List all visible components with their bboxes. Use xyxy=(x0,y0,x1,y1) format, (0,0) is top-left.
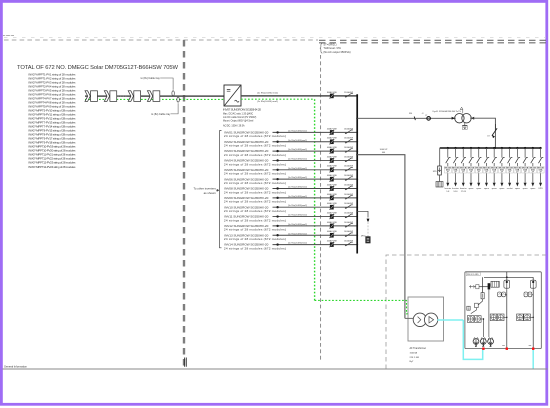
node GRID interface note xyxy=(320,43,351,55)
node LV feeder 2 load label xyxy=(452,187,459,193)
node LV feeder 2 rating label xyxy=(452,166,459,173)
breaker LV feeder 2 xyxy=(453,147,458,167)
switch S at y207 xyxy=(344,202,353,209)
svg-text:400A FUSE: 400A FUSE xyxy=(327,165,338,168)
svg-text:24 strings of 28 modules (672: 24 strings of 28 modules (672 modules) xyxy=(224,209,286,213)
fuse F at y217 xyxy=(327,211,338,219)
node bus junction INV11 xyxy=(356,216,358,218)
contactor RMU feeder 2 xyxy=(532,290,534,349)
svg-text:(2x 95x(2x185) mm2): (2x 95x(2x185) mm2) xyxy=(257,92,278,94)
node bus junction INV09 xyxy=(356,197,358,199)
meter pair RMU feeder 1 xyxy=(490,314,504,321)
svg-text:24 strings of 28 modules (672: 24 strings of 28 modules (672 modules) xyxy=(224,162,286,166)
svg-text:to (8x) Cable tray: to (8x) Cable tray xyxy=(141,77,161,80)
node LV feeder 9 load label xyxy=(507,187,513,190)
node bus junction INV10 xyxy=(356,206,358,208)
svg-text:24 strings of 28 modules (672: 24 strings of 28 modules (672 modules) xyxy=(224,144,286,148)
svg-text:400A FUSE: 400A FUSE xyxy=(327,174,338,177)
node LV feeder 7 load label xyxy=(492,188,498,190)
node feeder entry INV02 xyxy=(224,140,286,148)
svg-text:Max. DC/AC ratio 1.35 @40C: Max. DC/AC ratio 1.35 @40C xyxy=(223,112,254,115)
transformer T2 auxiliary box xyxy=(408,297,444,341)
svg-text:(1x 95x(2x185)mm2): (1x 95x(2x185)mm2) xyxy=(288,215,307,217)
svg-text:400A FUSE: 400A FUSE xyxy=(327,146,338,149)
fuse F at y132 xyxy=(327,127,338,135)
svg-text:spare: spare xyxy=(492,188,498,190)
breaker LV feeder 5 xyxy=(477,147,482,167)
connector lug J2 xyxy=(177,97,179,102)
svg-text:24 strings of 28 modules (672: 24 strings of 28 modules (672 modules) xyxy=(224,181,286,185)
fuse F at y179 xyxy=(327,174,338,182)
svg-text:22K 2.5M: 22K 2.5M xyxy=(410,357,420,359)
current transformer CT1 xyxy=(425,115,430,120)
node LV feeder 4 load label xyxy=(468,188,474,190)
node RMU f2 junction xyxy=(530,317,534,318)
node bus junction INV06 xyxy=(356,178,358,180)
node feeder entry INV09 xyxy=(224,196,286,204)
breaker LV feeder 1 xyxy=(446,147,451,167)
svg-text:INV07 SUNGROW SG350HX-20: INV07 SUNGROW SG350HX-20 xyxy=(223,108,261,112)
node bus junction INV08 xyxy=(356,188,358,190)
svg-text:400A FUSE: 400A FUSE xyxy=(327,240,338,243)
switch S at y160 xyxy=(344,155,353,162)
contactor RMU feeder 1 xyxy=(506,290,508,349)
bus LV distribution xyxy=(440,147,542,149)
node RMU terminal red 1 xyxy=(482,348,484,350)
node feeder entry INV05 xyxy=(224,168,286,176)
wire DC earth green dotted xyxy=(85,98,224,100)
wire cyan T2 to RMU xyxy=(437,319,463,321)
wire feeder INV06 to bus xyxy=(273,177,358,180)
breaker LV feeder 10 xyxy=(515,147,520,167)
wire RMU left branch down xyxy=(481,289,489,337)
breaker LV feeder 6 xyxy=(484,147,489,167)
svg-text:24 strings of 28 modules (672: 24 strings of 28 modules (672 modules) xyxy=(224,200,286,204)
wire LV feeder 9 out xyxy=(508,173,511,186)
wire boundary dashed vertical B xyxy=(320,55,322,362)
wire LV feeder 1 out xyxy=(446,173,449,186)
svg-text:(1x 95x(2x185)mm2): (1x 95x(2x185)mm2) xyxy=(288,177,307,179)
breaker LV feeder 12 xyxy=(531,147,536,167)
node bus junction INV12 xyxy=(356,225,358,227)
svg-text:(1x 95x(2x185)mm2): (1x 95x(2x185)mm2) xyxy=(288,140,307,142)
svg-text:(No AC output 350KVA): (No AC output 350KVA) xyxy=(323,50,350,54)
current transformer CT2 metering drop xyxy=(357,211,370,243)
node callout cable tray lower xyxy=(151,103,178,116)
node feeder entry INV04 xyxy=(224,159,286,167)
svg-text:SPD: SPD xyxy=(433,171,438,173)
wire LV feeder 12 out xyxy=(531,173,534,186)
wire feeder INV02 to bus xyxy=(273,140,358,143)
wire LV feeder 7 out xyxy=(493,173,496,186)
wire LV feeder 3 out xyxy=(462,173,465,186)
svg-text:(1x 95x(2x185)mm2): (1x 95x(2x185)mm2) xyxy=(288,158,307,160)
node bus junction INV02 xyxy=(356,141,358,143)
PV string block PV2 xyxy=(104,91,116,102)
svg-text:400A FUSE: 400A FUSE xyxy=(327,221,338,224)
wire feeder INV05 to bus xyxy=(273,168,358,171)
svg-text:spare: spare xyxy=(499,188,505,190)
svg-text:400A FUSE: 400A FUSE xyxy=(327,137,338,140)
node inverter label INV07 xyxy=(223,108,261,128)
fuse F at y160 xyxy=(327,155,338,163)
node feeder entry INV12 xyxy=(224,224,286,232)
svg-text:THD level <3%: THD level <3% xyxy=(323,46,341,50)
node LV feeder 6 load label xyxy=(484,188,490,190)
node LV feeder 11 load label xyxy=(523,188,529,190)
switch S at y235 xyxy=(344,230,353,237)
node bus junction INV05 xyxy=(356,169,358,171)
wire bus tap to aux transformer xyxy=(356,154,405,319)
node LV feeder 12 rating label xyxy=(529,166,536,173)
PV string block PV1 xyxy=(85,91,97,102)
svg-text:To other inverters: To other inverters xyxy=(193,186,216,190)
fuse RMU feeder 2 xyxy=(532,277,534,280)
breaker RMU incomer xyxy=(479,277,500,289)
svg-text:24 strings of 28 modules (672: 24 strings of 28 modules (672 modules) xyxy=(224,190,286,194)
node bracket group other inverters xyxy=(193,131,221,248)
node tap label 4000A xyxy=(409,113,424,120)
switch S at y96 xyxy=(344,91,353,98)
svg-text:General Information: General Information xyxy=(4,364,27,368)
ground transformer T1 xyxy=(462,123,467,129)
wire bottom rule xyxy=(3,368,548,370)
svg-text:(1x 95x(2x185)mm2): (1x 95x(2x185)mm2) xyxy=(288,149,307,151)
svg-text:24 strings of 28 modules (672: 24 strings of 28 modules (672 modules) xyxy=(224,172,286,176)
svg-text:RyT: RyT xyxy=(410,361,415,363)
node feeder entry INV14 xyxy=(224,243,286,251)
node LV feeder 5 rating label xyxy=(475,166,482,173)
fuse F at y188 xyxy=(327,183,338,191)
svg-text:(1x 95x(2x185)mm2): (1x 95x(2x185)mm2) xyxy=(288,168,307,170)
wire top tick row xyxy=(3,35,546,37)
fuse F at y226 xyxy=(327,221,338,229)
svg-text:spare: spare xyxy=(476,188,482,190)
wire LV feeder 8 out xyxy=(500,173,503,186)
svg-text:Mount: Output 800V @4.5msl: Mount: Output 800V @4.5msl xyxy=(223,119,254,122)
ground SPD xyxy=(436,182,443,188)
wire top dashed boundary right (double) xyxy=(319,40,546,43)
node LV feeder 8 rating label xyxy=(499,166,506,173)
connector lug J1 xyxy=(172,91,174,96)
svg-text:400A FUSE: 400A FUSE xyxy=(327,193,338,196)
svg-text:(1x 95x(2x185)mm2): (1x 95x(2x185)mm2) xyxy=(288,130,307,132)
svg-text:24 strings of 28 modules (672: 24 strings of 28 modules (672 modules) xyxy=(224,237,286,241)
node LV feeder 3 load label xyxy=(460,187,467,193)
fuse F at y151 xyxy=(327,146,338,154)
svg-text:800A FUSE: 800A FUSE xyxy=(327,91,338,94)
switch S at y132 xyxy=(344,127,353,134)
node transformer T2 label xyxy=(410,347,427,363)
wire contactor link f1 xyxy=(505,293,506,296)
wire LV feeder 2 out xyxy=(454,173,457,186)
wire bus tap to MV transformer xyxy=(356,117,455,119)
breaker LV feeder 9 xyxy=(508,147,513,167)
panel RMU box xyxy=(465,272,541,349)
wire feeder INV11 to bus xyxy=(273,215,358,218)
svg-text:(1x 95x(2x185)mm2): (1x 95x(2x185)mm2) xyxy=(288,187,307,189)
svg-text:(1x 95x(2x185)mm2): (1x 95x(2x185)mm2) xyxy=(288,205,307,207)
node LV feeder 7 rating label xyxy=(491,166,498,173)
wire feeder INV10 to bus xyxy=(273,205,358,208)
fuse F at y207 xyxy=(327,202,338,210)
node RMU terminal red 3 xyxy=(529,345,535,350)
node RMU f1 junction xyxy=(504,317,507,318)
node RMU title xyxy=(466,272,480,276)
node bus junction main xyxy=(356,95,358,97)
surge arrester RMU 3 xyxy=(488,337,494,347)
node LV feeder 8 load label xyxy=(499,188,505,190)
node LV feeder 13 load label xyxy=(538,188,543,190)
wire contactor link f2 xyxy=(532,293,533,296)
wire LV feeder 5 out xyxy=(477,173,480,186)
svg-text:400A FUSE: 400A FUSE xyxy=(327,211,338,214)
node callout cable tray upper xyxy=(141,77,173,90)
node bus junction INV03 xyxy=(356,150,358,152)
svg-text:(2x 95x(2x185) mm2): (2x 95x(2x185) mm2) xyxy=(257,101,278,103)
wire LV feeder 11 out xyxy=(524,173,527,186)
node LV feeder 13 rating label xyxy=(537,166,544,173)
fuse F at y96 xyxy=(327,91,338,99)
node tap label 1000 UP 400 xyxy=(380,149,388,154)
svg-text:(1x 95x(2x185)mm2): (1x 95x(2x185)mm2) xyxy=(288,243,307,245)
svg-text:4PSx: 4PSx xyxy=(361,236,366,238)
bus LV main vertical xyxy=(356,94,358,253)
wire feeder INV13 to bus xyxy=(273,233,358,236)
fuse F at y170 xyxy=(327,165,338,173)
wire LV feeder 10 out xyxy=(516,173,519,186)
fuse F at y235 xyxy=(327,230,338,238)
wire LV feeder 6 out xyxy=(485,173,488,186)
svg-text:400A FUSE: 400A FUSE xyxy=(327,230,338,233)
svg-text:400A FUSE: 400A FUSE xyxy=(327,127,338,130)
wire DC string main xyxy=(85,95,224,97)
wire feeder INV09 to bus xyxy=(273,196,358,199)
svg-text:Inverter: Inverter xyxy=(452,187,459,190)
fuse F at y142 xyxy=(327,137,338,145)
svg-text:AF Transformer: AF Transformer xyxy=(410,347,427,350)
fuse F at y198 xyxy=(327,193,338,201)
wire AC earth green xyxy=(241,98,315,100)
surge arrester RMU 2 xyxy=(480,337,486,347)
svg-text:spare: spare xyxy=(515,188,521,190)
switch S at y245 xyxy=(344,240,353,247)
node LV feeder 4 rating label xyxy=(468,166,475,173)
svg-text:ST=GRID_/: ST=GRID_/ xyxy=(323,43,337,47)
switch RMU section xyxy=(467,287,484,314)
wire feeder INV03 to bus xyxy=(273,149,358,152)
svg-text:(1x 95x(2x185)mm2): (1x 95x(2x185)mm2) xyxy=(288,196,307,198)
breaker LV feeder 13 xyxy=(538,147,543,167)
svg-text:spare: spare xyxy=(468,188,474,190)
breaker LV main xyxy=(487,124,497,138)
svg-text:as shown: as shown xyxy=(204,191,217,195)
surge arrester RMU 1 xyxy=(473,337,479,347)
svg-text:(1x 95x(2x185)mm2): (1x 95x(2x185)mm2) xyxy=(288,233,307,235)
svg-text:min DC cable 6mm2 (PV 1500V): min DC cable 6mm2 (PV 1500V) xyxy=(223,117,257,119)
transformer T1 MV xyxy=(452,107,475,123)
PV string block PV3 xyxy=(128,91,140,102)
wire earth green to aux transformer xyxy=(315,300,414,313)
svg-text:to (8x) Cable tray: to (8x) Cable tray xyxy=(151,113,171,116)
svg-text:17-24: 17-24 xyxy=(461,191,467,193)
node LV feeder 6 rating label xyxy=(483,166,490,173)
node feeder entry INV06 xyxy=(224,177,286,185)
meter pair RMU left xyxy=(467,316,481,323)
svg-text:Inverter: Inverter xyxy=(444,187,451,190)
fuse F at y245 xyxy=(327,240,338,248)
node feeder entry INV13 xyxy=(224,233,286,241)
breaker LV feeder 11 xyxy=(523,147,528,167)
wire top dashed boundary left xyxy=(4,39,318,41)
node junction feed xyxy=(495,147,497,149)
node LV feeder 1 rating label xyxy=(444,166,451,173)
node LV feeder 3 rating label xyxy=(460,166,467,173)
node feeder entry INV03 xyxy=(224,149,286,157)
svg-text:400A FUSE: 400A FUSE xyxy=(327,202,338,205)
svg-text:24 strings of 28 modules (672: 24 strings of 28 modules (672 modules) xyxy=(224,246,286,250)
svg-text:spare: spare xyxy=(484,188,490,190)
meter pair RMU feeder 2 xyxy=(517,314,531,321)
wire feeder INV12 to bus xyxy=(273,224,358,227)
node LV feeder 9 rating label xyxy=(506,166,513,173)
node bus junction INV14 xyxy=(356,244,358,246)
node PV string list xyxy=(28,72,76,168)
switch S at y170 xyxy=(344,165,353,172)
node RMU terminal red 2 xyxy=(502,345,508,350)
node LV feeder 10 rating label xyxy=(514,166,521,173)
svg-text:400A FUSE: 400A FUSE xyxy=(327,155,338,158)
svg-text:(1x 95x(2x185)mm2): (1x 95x(2x185)mm2) xyxy=(288,224,307,226)
transformer T2 windings xyxy=(405,313,438,326)
node feeder entry INV01 xyxy=(224,131,286,139)
PV string block PV4 xyxy=(147,91,159,102)
node LV feeder 5 load label xyxy=(476,188,482,190)
svg-text:xx xxxx xxx: xx xxxx xxx xyxy=(3,35,15,37)
node LV feeder 11 rating label xyxy=(522,166,529,173)
wire LV feeder 4 out xyxy=(469,173,472,186)
svg-text:24 strings of 28 modules (672: 24 strings of 28 modules (672 modules) xyxy=(224,228,286,232)
breaker LV feeder 4 xyxy=(469,147,474,167)
wire transformer to LV bus xyxy=(470,118,495,148)
switch S at y226 xyxy=(344,221,353,228)
node LV feeder 1 load label xyxy=(444,187,451,193)
svg-text:TOTAL OF 672 NO. DMEGC Solar D: TOTAL OF 672 NO. DMEGC Solar DM705G12T-B… xyxy=(17,65,179,71)
surge arrester SPD xyxy=(433,148,442,182)
node feeder entry INV11 xyxy=(224,215,286,223)
wire feeder INV14 to bus xyxy=(273,243,358,246)
svg-text:PM-12.5-3RD: PM-12.5-3RD xyxy=(467,274,479,276)
wire feeder INV04 to bus xyxy=(273,158,358,161)
fuse RMU feeder 1 xyxy=(506,272,508,280)
wire cyan RMU loop xyxy=(463,320,482,359)
svg-text:socket: socket xyxy=(507,187,513,190)
node bus junction INV04 xyxy=(356,160,358,162)
switch S at y188 xyxy=(344,183,353,190)
node LV feeder 10 load label xyxy=(515,188,521,190)
svg-text:Inverter: Inverter xyxy=(460,187,467,190)
svg-text:400A FUSE: 400A FUSE xyxy=(327,183,338,186)
bus RMU top xyxy=(484,276,533,278)
wire earth green vertical riser xyxy=(314,99,316,300)
wire feeder INV08 to bus xyxy=(273,187,358,190)
svg-text:AC/DC: 150A / 29.5A: AC/DC: 150A / 29.5A xyxy=(223,124,245,127)
breaker LV feeder 8 xyxy=(500,147,505,167)
connector RMU incoming xyxy=(469,285,479,289)
switch S at y142 xyxy=(344,137,353,144)
switch S at y198 xyxy=(344,193,353,200)
wire boundary dashed region C xyxy=(386,255,546,369)
inverter U-INV07 xyxy=(224,85,241,106)
node bus junction INV13 xyxy=(356,234,358,236)
svg-text:UPS: UPS xyxy=(538,188,543,190)
wire string continuation dotted xyxy=(118,95,129,97)
svg-text:24 strings of 28 modules (672: 24 strings of 28 modules (672 modules) xyxy=(224,218,286,222)
wire AC main from inverter to bus xyxy=(241,95,357,97)
svg-text:Dyn11 3150kVA 33/0.8kV Z=7%: Dyn11 3150kVA 33/0.8kV Z=7% xyxy=(433,110,462,113)
switch S at y179 xyxy=(344,174,353,181)
breaker LV feeder 7 xyxy=(492,147,497,167)
breaker LV feeder 3 xyxy=(461,147,466,167)
switch S at y151 xyxy=(344,146,353,153)
svg-text:spare: spare xyxy=(530,188,536,190)
svg-text:100kVA: 100kVA xyxy=(410,352,418,355)
switch S at y217 xyxy=(344,211,353,218)
wire LV feeder 13 out xyxy=(539,173,542,186)
node feeder entry INV10 xyxy=(224,205,286,213)
svg-text:24 strings of 28 modules (672: 24 strings of 28 modules (672 modules) xyxy=(224,153,286,157)
wire boundary dashed vertical A xyxy=(183,40,185,369)
svg-text:spare: spare xyxy=(523,188,529,190)
svg-text:24 strings of 28 modules (672: 24 strings of 28 modules (672 modules) xyxy=(224,134,286,138)
node LV feeder 12 load label xyxy=(530,188,536,190)
svg-text:INV07-MPPT12-PV24 string of 28: INV07-MPPT12-PV24 string of 28 modules xyxy=(28,165,76,169)
node feeder entry INV08 xyxy=(224,187,286,195)
wire cyan RMU right drop xyxy=(532,349,534,369)
node bus junction INV01 xyxy=(356,132,358,134)
node bottom tick marks xyxy=(185,358,187,367)
wire feeder INV01 to bus xyxy=(273,130,358,133)
